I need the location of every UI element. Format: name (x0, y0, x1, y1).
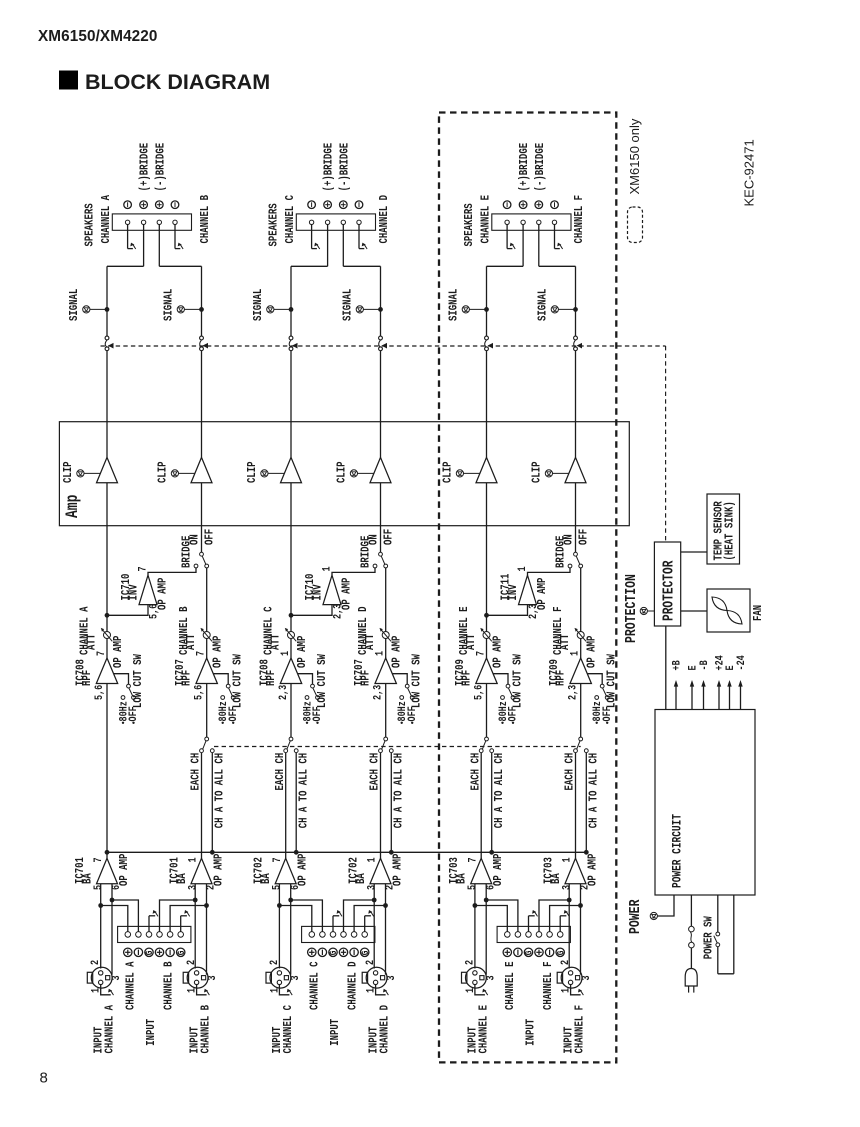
svg-text:-24: -24 (735, 655, 747, 670)
svg-text:ON: ON (563, 534, 577, 545)
svg-text:OP AMP: OP AMP (296, 854, 310, 886)
svg-text:1: 1 (568, 651, 580, 656)
svg-text:POWER: POWER (628, 899, 645, 934)
svg-text:BA: BA (176, 873, 190, 884)
svg-text:2,3: 2,3 (277, 685, 289, 700)
svg-text:CHANNEL A: CHANNEL A (100, 194, 114, 243)
svg-text:CHANNEL B: CHANNEL B (199, 194, 213, 243)
svg-text:LOW CUT SW: LOW CUT SW (132, 654, 146, 708)
svg-text:INPUT: INPUT (524, 1019, 538, 1046)
svg-text:OFF: OFF (311, 706, 323, 721)
svg-text:INV: INV (311, 584, 325, 601)
svg-text:5: 5 (466, 885, 478, 890)
svg-text:SIGNAL: SIGNAL (68, 289, 82, 321)
svg-text:OP AMP: OP AMP (536, 578, 550, 610)
svg-text:OP AMP: OP AMP (391, 854, 405, 886)
svg-text:3: 3 (365, 885, 377, 890)
svg-text:3: 3 (560, 885, 572, 890)
svg-text:OP AMP: OP AMP (212, 854, 226, 886)
svg-text:HPF: HPF (81, 670, 95, 686)
svg-text:LOW CUT SW: LOW CUT SW (316, 654, 330, 708)
svg-text:OFF: OFF (577, 529, 591, 545)
svg-text:ATT: ATT (364, 634, 378, 650)
svg-text:G: G (523, 950, 535, 955)
svg-text:OP AMP: OP AMP (491, 636, 505, 668)
svg-text:CHANNEL B: CHANNEL B (162, 961, 176, 1010)
svg-text:CHANNEL A: CHANNEL A (124, 961, 138, 1010)
svg-text:CH A TO ALL CH: CH A TO ALL CH (393, 753, 407, 828)
svg-text:2: 2 (364, 960, 376, 965)
svg-text:CHANNEL F: CHANNEL F (573, 1005, 587, 1054)
svg-text:CHANNEL C: CHANNEL C (308, 961, 322, 1010)
svg-text:SPEAKERS: SPEAKERS (267, 203, 281, 246)
svg-text:ATT: ATT (465, 634, 479, 650)
svg-text:7: 7 (271, 857, 283, 862)
svg-text:INPUT: INPUT (329, 1019, 343, 1046)
svg-text:G: G (143, 950, 155, 955)
svg-text:1: 1 (561, 857, 573, 862)
svg-text:CLIP: CLIP (246, 461, 260, 483)
svg-text:(-)BRIDGE: (-)BRIDGE (339, 143, 353, 192)
svg-text:3: 3 (484, 975, 496, 980)
svg-text:HPF: HPF (460, 670, 474, 686)
svg-text:3: 3 (580, 975, 592, 980)
svg-text:ATT: ATT (85, 634, 99, 650)
svg-text:5: 5 (92, 885, 104, 890)
svg-text:PROTECTION: PROTECTION (624, 574, 641, 643)
svg-text:7: 7 (92, 857, 104, 862)
svg-text:OP AMP: OP AMP (296, 636, 310, 668)
svg-text:BA: BA (455, 873, 469, 884)
svg-text:G: G (554, 950, 566, 955)
svg-text:HPF: HPF (265, 670, 279, 686)
svg-text:1: 1 (279, 651, 291, 656)
svg-text:BLOCK DIAGRAM: BLOCK DIAGRAM (85, 70, 270, 94)
svg-text:CLIP: CLIP (335, 461, 349, 483)
svg-text:OFF: OFF (203, 529, 217, 545)
svg-text:HPF: HPF (554, 670, 568, 686)
svg-text:5,6: 5,6 (193, 685, 205, 700)
svg-text:OFF: OFF (227, 706, 239, 721)
svg-text:3: 3 (110, 975, 122, 980)
svg-text:OP AMP: OP AMP (118, 854, 132, 886)
svg-text:CHANNEL E: CHANNEL E (478, 1005, 492, 1054)
svg-text:1: 1 (516, 566, 528, 571)
svg-text:Amp: Amp (62, 495, 82, 518)
svg-text:5,6: 5,6 (472, 685, 484, 700)
svg-text:2: 2 (559, 960, 571, 965)
svg-text:LOW CUT SW: LOW CUT SW (411, 654, 425, 708)
svg-text:CHANNEL F: CHANNEL F (542, 961, 556, 1010)
svg-text:XM6150/XM4220: XM6150/XM4220 (38, 28, 158, 45)
svg-text:-B: -B (698, 660, 710, 670)
svg-text:INPUT: INPUT (145, 1019, 159, 1046)
svg-text:7: 7 (136, 566, 148, 571)
svg-text:CHANNEL E: CHANNEL E (504, 961, 518, 1010)
svg-text:CHANNEL A: CHANNEL A (103, 1004, 117, 1053)
svg-text:CHANNEL F: CHANNEL F (573, 195, 587, 244)
svg-text:1: 1 (366, 857, 378, 862)
svg-text:2,3: 2,3 (567, 685, 579, 700)
svg-text:SPEAKERS: SPEAKERS (463, 203, 477, 246)
svg-text:(+)BRIDGE: (+)BRIDGE (518, 143, 532, 192)
svg-text:OP AMP: OP AMP (390, 636, 404, 668)
svg-text:LOW CUT SW: LOW CUT SW (232, 654, 246, 708)
svg-text:CH A TO ALL CH: CH A TO ALL CH (588, 753, 602, 828)
svg-text:CLIP: CLIP (441, 461, 455, 483)
svg-text:SIGNAL: SIGNAL (447, 289, 461, 321)
svg-text:(-)BRIDGE: (-)BRIDGE (155, 143, 169, 192)
svg-text:5: 5 (271, 885, 283, 890)
svg-text:OP AMP: OP AMP (112, 636, 126, 668)
svg-text:8: 8 (40, 1070, 48, 1087)
svg-text:CHANNEL D: CHANNEL D (346, 961, 360, 1010)
svg-text:BA: BA (550, 873, 564, 884)
svg-text:SIGNAL: SIGNAL (341, 289, 355, 321)
svg-text:OP AMP: OP AMP (585, 636, 599, 668)
svg-text:XM6150 only: XM6150 only (627, 118, 642, 194)
svg-text:1: 1 (373, 651, 385, 656)
svg-text:OP AMP: OP AMP (340, 578, 354, 610)
svg-text:OFF: OFF (382, 529, 396, 545)
svg-text:SIGNAL: SIGNAL (162, 289, 176, 321)
svg-text:CH A TO ALL CH: CH A TO ALL CH (298, 753, 312, 828)
svg-text:CLIP: CLIP (156, 461, 170, 483)
svg-text:INV: INV (127, 584, 141, 601)
svg-text:OP AMP: OP AMP (492, 854, 506, 886)
svg-text:ATT: ATT (559, 634, 573, 650)
svg-text:(+)BRIDGE: (+)BRIDGE (323, 143, 337, 192)
svg-text:OFF: OFF (507, 706, 519, 721)
svg-text:LOW CUT SW: LOW CUT SW (606, 654, 620, 708)
svg-text:SPEAKERS: SPEAKERS (83, 203, 97, 246)
svg-text:OFF: OFF (127, 706, 139, 721)
svg-text:3: 3 (289, 975, 301, 980)
svg-text:CHANNEL D: CHANNEL D (378, 195, 392, 244)
svg-text:1: 1 (320, 566, 332, 571)
svg-text:2: 2 (89, 960, 101, 965)
svg-text:2,3: 2,3 (372, 685, 384, 700)
svg-text:CHANNEL B: CHANNEL B (199, 1004, 213, 1053)
svg-text:OFF: OFF (406, 706, 418, 721)
svg-text:CHANNEL D: CHANNEL D (378, 1005, 392, 1054)
svg-text:LOW CUT SW: LOW CUT SW (511, 654, 525, 708)
svg-text:ON: ON (189, 534, 203, 545)
svg-text:BA: BA (260, 873, 274, 884)
svg-text:3: 3 (186, 885, 198, 890)
svg-text:2: 2 (268, 960, 280, 965)
svg-text:CH A TO ALL CH: CH A TO ALL CH (214, 753, 228, 828)
svg-text:INV: INV (507, 584, 521, 601)
svg-text:SIGNAL: SIGNAL (252, 289, 266, 321)
svg-text:7: 7 (194, 651, 206, 656)
svg-text:2: 2 (463, 960, 475, 965)
svg-text:CLIP: CLIP (530, 461, 544, 483)
svg-text:ON: ON (368, 534, 382, 545)
svg-text:ATT: ATT (185, 634, 199, 650)
svg-text:CH A TO ALL CH: CH A TO ALL CH (493, 753, 507, 828)
svg-text:ATT: ATT (269, 634, 283, 650)
svg-text:SIGNAL: SIGNAL (536, 289, 550, 321)
svg-text:5,6: 5,6 (93, 685, 105, 700)
svg-text:CHANNEL C: CHANNEL C (284, 194, 298, 243)
svg-text:+B: +B (670, 660, 682, 670)
svg-text:G: G (327, 950, 339, 955)
svg-text:CHANNEL E: CHANNEL E (479, 195, 493, 244)
svg-text:OFF: OFF (601, 706, 613, 721)
svg-text:OP AMP: OP AMP (211, 636, 225, 668)
svg-text:OP AMP: OP AMP (156, 578, 170, 610)
svg-text:CHANNEL C: CHANNEL C (282, 1004, 296, 1053)
svg-text:BA: BA (355, 873, 369, 884)
svg-text:7: 7 (474, 651, 486, 656)
svg-text:(HEAT SINK): (HEAT SINK) (723, 501, 737, 560)
svg-text:POWER SW: POWER SW (702, 916, 716, 960)
svg-text:(+)BRIDGE: (+)BRIDGE (139, 143, 153, 192)
svg-text:POWER CIRCUIT: POWER CIRCUIT (671, 814, 685, 888)
svg-text:KEC-92471: KEC-92471 (742, 139, 757, 206)
svg-text:7: 7 (466, 857, 478, 862)
svg-text:BA: BA (81, 873, 95, 884)
svg-text:FAN: FAN (752, 605, 766, 621)
svg-text:OP AMP: OP AMP (586, 854, 600, 886)
svg-text:PROTECTOR: PROTECTOR (660, 560, 677, 621)
svg-text:2: 2 (185, 960, 197, 965)
svg-text:7: 7 (95, 651, 107, 656)
svg-text:G: G (175, 950, 187, 955)
svg-text:HPF: HPF (359, 670, 373, 686)
svg-text:3: 3 (206, 975, 218, 980)
svg-text:(-)BRIDGE: (-)BRIDGE (534, 143, 548, 192)
svg-text:1: 1 (187, 857, 199, 862)
svg-text:G: G (359, 950, 371, 955)
svg-text:CLIP: CLIP (62, 461, 76, 483)
svg-text:HPF: HPF (180, 670, 194, 686)
svg-text:3: 3 (385, 975, 397, 980)
